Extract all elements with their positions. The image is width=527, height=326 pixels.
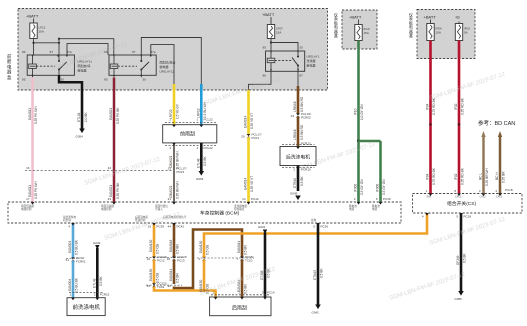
svg-text:0.35 PK WH: 0.35 PK WH [34,106,38,124]
fuse IF04 10A [427,20,442,41]
svg-text:0.5 GY GN: 0.5 GY GN [360,179,364,195]
node junction fuse bus [32,42,34,44]
svg-text:EAM304: EAM304 [68,241,72,253]
svg-text:EAM011: EAM011 [28,108,32,120]
svg-text:电器控制: 电器控制 [21,207,32,211]
wire IF02 red lower [454,126,465,194]
svg-text:PC39: PC39 [383,197,391,201]
svg-text:ETR40: ETR40 [293,178,297,188]
pin entry arrowheads [31,125,502,301]
svg-text:0.5 BN: 0.5 BN [176,273,180,283]
instrument panel fuse box (IF04/IF02) [417,10,475,59]
svg-text:IF02: IF02 [454,103,458,110]
wire EAM130 orange from BCM [148,223,165,258]
wire relay1 30 to ground jog [59,75,82,90]
svg-text:0.35 BR: 0.35 BR [502,171,506,183]
wire IF300 green left [354,141,365,202]
svg-text:参考：BD CAN: 参考：BD CAN [478,119,515,127]
svg-text:0.75 RD BK: 0.75 RD BK [432,167,436,185]
wire bus A y=46.4 [34,42,60,44]
fuse LF07 15A [267,17,283,39]
svg-text:PC13: PC13 [177,259,185,263]
svg-text:PC42: PC42 [177,225,185,229]
wire EAM304 light blue upper [68,223,79,258]
front wiper motor box 前雨刮 [163,123,217,146]
ground reference G031 [258,225,267,234]
svg-text:24: 24 [108,166,112,170]
relay LRELAY11 [22,50,92,82]
svg-text:0.35 YE VT: 0.35 YE VT [250,113,254,129]
svg-text:G054: G054 [196,177,204,181]
CS connector refs below top edge [427,195,503,199]
svg-text:LRELAY12: LRELAY12 [160,70,175,74]
svg-text:低速控制: 低速控制 [135,218,146,222]
svg-text:PCL22: PCL22 [204,118,214,122]
svg-text:ETL04: ETL04 [77,112,81,122]
svg-text:0.35 BN WH: 0.35 BN WH [176,181,180,199]
svg-text:85: 85 [263,46,267,50]
wire EAM130 orange middle [149,260,160,285]
svg-text:16: 16 [26,166,30,170]
wire EAM048 brown from BCM pin44 [168,223,185,258]
svg-text:PC39: PC39 [157,225,165,229]
svg-text:15A: 15A [364,31,369,35]
fuse LF12 20A [30,19,46,39]
svg-text:17: 17 [26,197,30,201]
wire LRW16 brown upper [293,86,304,114]
svg-text:PC12: PC12 [157,259,165,263]
inline connector CC02J/PC12 [147,255,168,263]
wire LF07 feed to relay3 [270,39,272,52]
svg-text:0.5 BU BK: 0.5 BU BK [75,277,79,293]
svg-text:PC01: PC01 [252,136,260,140]
svg-text:ETL49: ETL49 [93,278,97,288]
svg-text:0.5 BK: 0.5 BK [99,276,103,286]
svg-text:EAM044: EAM044 [237,241,241,253]
svg-text:87: 87 [132,50,136,54]
svg-text:雨刮高/低速: 雨刮高/低速 [160,60,176,65]
svg-text:PC14: PC14 [267,291,275,295]
wire orange lower to rear wiper pin1 [199,260,215,298]
svg-text:18: 18 [167,257,171,261]
svg-text:仪表板电器盒: 仪表板电器盒 [334,12,338,38]
svg-text:0.5 BN RD: 0.5 BN RD [300,124,304,140]
combination switch CS box [413,194,523,214]
svg-text:继电器: 继电器 [160,64,169,69]
svg-text:EAM021: EAM021 [109,108,113,120]
svg-text:0.35 RD BK: 0.35 RD BK [461,167,465,185]
svg-text:G049: G049 [93,241,101,245]
svg-text:EAM044: EAM044 [169,269,173,281]
svg-text:G054: G054 [76,135,84,139]
svg-text:仪表板电器盒: 仪表板电器盒 [409,12,413,38]
wire brown route up-over [174,230,242,289]
svg-text:继电器: 继电器 [78,68,87,73]
svg-text:PCL22: PCL22 [204,146,214,150]
wire LRF12 blue [197,84,213,125]
inline connector PCL17/PC01 on EAM014 [241,133,262,141]
svg-text:LRW16: LRW16 [293,101,297,112]
svg-text:PCR02: PCR02 [301,115,311,119]
inline connector CC32J/TC01 [147,282,168,290]
svg-text:0.35 PK BK: 0.35 PK BK [116,107,120,124]
svg-text:ETN43: ETN43 [313,270,317,280]
svg-text:0.5 OG: 0.5 OG [206,244,210,255]
wire EAM044 brown zigzag [168,260,180,289]
svg-text:IG: IG [456,15,460,20]
svg-text:15A: 15A [276,31,281,35]
wire DFJ49 black CS to G056 [456,213,471,291]
wire G045 black below rear washer [293,166,311,192]
wire line D relay2 87 to blue drop [141,38,201,85]
svg-text:22: 22 [168,284,172,288]
svg-text:后雨刮: 后雨刮 [232,305,247,312]
svg-text:+BATT: +BATT [26,14,39,19]
BCM pin descriptor texts bottom edge [63,215,317,222]
wire LRF22 yellow [169,84,180,125]
ground G054 (second) [196,171,204,181]
svg-text:0.5 BN: 0.5 BN [176,244,180,254]
wire EAM014 yellow lower [242,137,259,202]
svg-text:控制输出: 控制输出 [234,207,245,211]
svg-text:0.5 BU BK: 0.5 BU BK [75,239,79,255]
wire brown labels right vertical [237,241,248,255]
svg-text:G031: G031 [258,225,266,229]
svg-text:23: 23 [108,197,112,201]
node junction green split [357,140,360,143]
svg-text:EAM048: EAM048 [169,240,173,252]
svg-text:10A: 10A [436,31,441,35]
svg-text:21: 21 [168,197,172,201]
svg-text:ETL48: ETL48 [197,158,201,168]
inline connector PC32/FCR01 [66,256,86,264]
ground G056 [455,291,464,301]
wire CBM021 from pin3 upper [169,143,179,171]
svg-text:0.35 YE VT: 0.35 YE VT [250,176,254,192]
ground reference G049 [93,241,101,249]
svg-text:IF300: IF300 [376,184,380,192]
svg-text:PC18: PC18 [505,188,513,192]
svg-text:0.5 BK: 0.5 BK [463,253,467,263]
svg-text:30: 30 [61,78,65,82]
ground G042 [312,305,321,315]
svg-text:IF02: IF02 [454,173,458,180]
svg-text:EAM130: EAM130 [199,241,203,253]
wire brown lower labels [237,280,248,295]
svg-text:EAM021: EAM021 [109,185,113,197]
svg-text:洗涤器: 洗涤器 [307,58,316,63]
svg-text:0.5 BK: 0.5 BK [203,156,207,166]
svg-text:1.0 BK: 1.0 BK [84,112,88,122]
wire IF04 red upper [426,41,437,124]
svg-text:组合开关(CS): 组合开关(CS) [447,200,476,207]
wire G054b black from pin6 [197,143,214,171]
inline connector PCL15/PCR02 on LRW16 [291,112,312,120]
svg-text:85: 85 [22,78,26,82]
svg-text:EAM130: EAM130 [149,240,153,252]
front washer motor box 前洗涤电机 [67,293,105,316]
wire riser relay1 87 [58,39,60,55]
svg-text:电器控制: 电器控制 [101,207,112,211]
front compartment electrical box (FECB) [18,9,328,91]
svg-text:LRW16: LRW16 [293,129,297,140]
wire ETN43 black BCM to G042 [313,223,328,305]
svg-text:23: 23 [291,114,295,118]
svg-text:IF10: IF10 [354,108,358,115]
svg-text:86: 86 [263,74,267,78]
node splice on IF02 [458,123,461,126]
svg-text:+BATT: +BATT [262,12,275,17]
svg-text:机控制: 机控制 [63,218,71,222]
wire green branch horizontal [359,140,381,143]
svg-text:5A: 5A [464,31,468,35]
wire orange from CS to rear wiper [199,213,427,258]
relay LRELAY12 [104,50,175,82]
wire IF300 green right [376,141,391,202]
inline connector PC05/TC10 [198,255,253,263]
svg-text:IF04: IF04 [426,173,430,180]
svg-text:继电器: 继电器 [307,63,316,68]
svg-text:TC01: TC01 [157,285,165,289]
wire IF02 red upper [454,41,465,124]
rear wiper motor box 后雨刮 [210,295,271,316]
svg-text:电源: 电源 [349,207,355,211]
svg-text:0.5 BK: 0.5 BK [320,268,324,278]
svg-text:EAM304: EAM304 [68,279,72,291]
instrument panel fuse box (IF10) [342,10,377,49]
svg-text:+BATT: +BATT [424,15,437,20]
svg-text:86: 86 [22,50,26,54]
svg-text:14: 14 [242,197,246,201]
svg-text:号输入: 号输入 [155,207,163,211]
wire EAM130 orange elbow to junction [154,287,217,291]
svg-text:44: 44 [168,225,172,229]
body control module BCM box [8,202,401,223]
svg-text:0.35 BR WH: 0.35 BR WH [485,168,489,186]
svg-text:G045: G045 [290,192,298,196]
svg-text:0.5 BK: 0.5 BK [300,176,304,186]
svg-text:后洗涤电机: 后洗涤电机 [286,154,310,161]
svg-text:0.5 BN: 0.5 BN [244,284,248,294]
svg-text:FCR15: FCR15 [100,293,110,297]
wire line B y=38.7 to relay2 86 [59,39,114,55]
svg-text:0.5 BN: 0.5 BN [244,245,248,255]
svg-text:雨刮启/停: 雨刮启/停 [78,63,91,68]
svg-text:16: 16 [147,257,151,261]
wire fuse LF12 to bus [33,39,35,56]
svg-text:+BATT: +BATT [349,15,362,20]
svg-text:G056: G056 [455,297,463,301]
node junction orange [203,289,206,292]
rear washer motor box 后洗涤电机 [280,145,316,168]
wire EAM011 pink upper [28,78,38,171]
svg-text:LRELAY1: LRELAY1 [307,55,320,59]
svg-text:IF300: IF300 [354,184,358,192]
svg-text:0.35 PK WH: 0.35 PK WH [34,181,38,199]
wire IF04 red lower [426,126,437,194]
svg-text:0.5 GY GN: 0.5 GY GN [382,179,386,195]
svg-text:0.5 OG: 0.5 OG [156,243,160,254]
ground G045 [290,192,301,201]
svg-text:10: 10 [147,284,151,288]
svg-text:PCR12: PCR12 [301,142,311,146]
svg-text:BC L: BC L [479,173,483,180]
svg-text:87: 87 [50,50,54,54]
svg-text:0.35 PK BK: 0.35 PK BK [116,182,120,199]
inline connector dashed segments lower [146,257,182,259]
wire EAM021 maroon lower [108,166,120,202]
svg-text:前舱电器盒: 前舱电器盒 [7,53,12,80]
wire G049 black to front washer [93,248,110,298]
svg-text:EAM130: EAM130 [149,269,153,281]
svg-text:TC10: TC10 [245,259,253,263]
BCM pin descriptor texts top edge [21,204,380,211]
svg-text:0.35 RD BK: 0.35 RD BK [461,97,465,115]
svg-text:PC42: PC42 [251,197,259,201]
wire G031 black to rear wiper pin3 [260,233,275,298]
svg-text:1.5 YE GY: 1.5 YE GY [176,103,180,119]
svg-text:电源: 电源 [372,207,378,211]
wire relay3 87 stub [297,71,299,86]
fuse IF02 5A [455,22,470,41]
svg-text:87: 87 [300,74,304,78]
node junction at 59,38.7 [58,38,60,40]
wire LRW16 brown lower [293,117,311,147]
svg-text:FCR01: FCR01 [76,260,86,264]
wire CBM021 lower [168,167,187,203]
wire line C relay1 87a [67,44,108,55]
svg-text:1.0 GY GN: 1.0 GY GN [360,104,364,120]
wire EAM304 light blue lower [68,261,79,298]
svg-text:前洗涤电机: 前洗涤电机 [73,303,101,311]
wire EAM011 pink lower [26,166,38,202]
svg-text:0.5 BN RD: 0.5 BN RD [300,96,304,112]
svg-text:PC18: PC18 [464,215,472,219]
svg-text:87a: 87a [67,50,72,54]
svg-text:20A: 20A [39,30,44,34]
wire BC H CAN with arrow [495,131,513,194]
watermarks [51,41,507,301]
inline connector CC02J/PC13 [167,255,188,263]
svg-text:EAM014: EAM014 [244,116,248,128]
svg-text:30: 30 [143,78,147,82]
wire IF10 green main [354,41,365,142]
svg-text:EAM014: EAM014 [244,178,248,190]
node splice on IF04 [429,123,432,126]
svg-text:DFJ49: DFJ49 [456,255,460,265]
wire G054a black to ground [77,90,88,129]
svg-text:30: 30 [300,46,304,50]
wire EAM021 maroon upper [109,78,120,171]
wire BC L CAN with arrow [479,131,490,194]
svg-text:接地: 接地 [311,218,317,222]
relay LRELAY1 [263,46,320,78]
fuse IF10 15A [355,20,370,41]
svg-text:PC03: PC03 [177,170,185,174]
svg-text:23: 23 [168,167,172,171]
inline connector PCL17/PC03 dashed line [25,170,172,172]
wire brown lower to rear wiper pin2 [241,260,244,298]
svg-text:BC H: BC H [495,172,499,180]
svg-text:G042: G042 [312,311,320,315]
svg-text:85: 85 [104,78,108,82]
wire line E relay2 87a to yellow drop [151,45,174,84]
svg-text:29: 29 [241,135,245,139]
svg-text:87a: 87a [151,50,156,54]
svg-text:前雨刮: 前雨刮 [180,131,195,138]
wire EAM014 yellow upper [244,90,255,135]
svg-text:EAM011: EAM011 [28,185,32,197]
svg-text:IF04: IF04 [426,103,430,110]
svg-text:PC39: PC39 [321,225,329,229]
ground G054 [76,129,85,139]
wire relay3 86 jog to EAM014 [249,71,272,90]
